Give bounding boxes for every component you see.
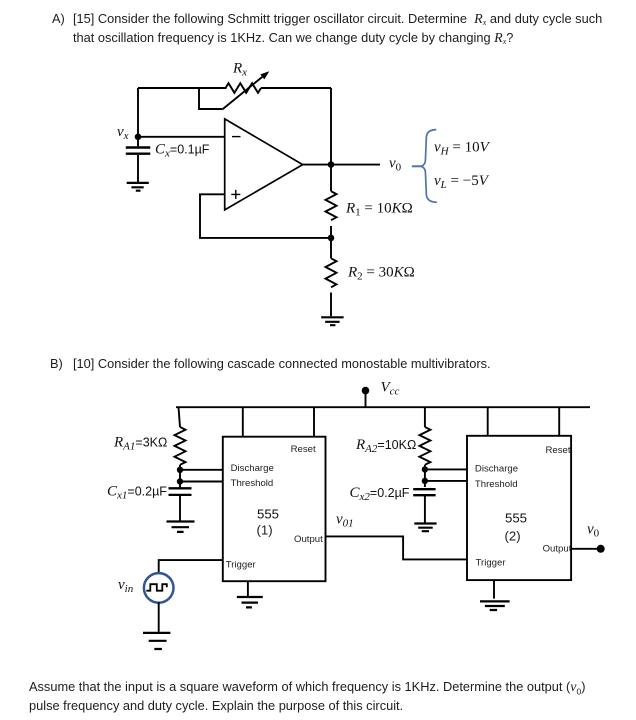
pin label Threshold (2) (475, 479, 518, 490)
wire: top rail left segment (138, 87, 227, 89)
wire: rail to RA1 (179, 407, 181, 427)
IC U1: 555 (1) box (223, 437, 326, 582)
capacitor Cx top lead (137, 137, 139, 147)
label vH = 10V (434, 140, 491, 158)
svg-text:Vcc: Vcc (381, 380, 400, 398)
svg-text:(2): (2) (505, 529, 521, 544)
svg-text:R1 = 10KΩ: R1 = 10KΩ (345, 201, 413, 219)
svg-text:Cx2=0.2µF: Cx2=0.2µF (350, 485, 410, 503)
IC U2: 555 (2) box (467, 436, 571, 580)
ground (under Cx1) (167, 522, 195, 532)
wire: output1 to trigger2 (326, 536, 468, 559)
svg-text:RA1=3KΩ: RA1=3KΩ (113, 435, 167, 453)
label (2) (505, 529, 521, 544)
svg-text:v01: v01 (336, 512, 354, 530)
wire: node vx to op-amp inverting input (138, 136, 225, 138)
label Cx1=0.2uF (107, 484, 167, 502)
svg-text:v0: v0 (389, 156, 402, 174)
wire: top-left vertical from rail to node vx (137, 88, 139, 137)
wire: rail to 555(2) Reset pin (558, 407, 560, 436)
svg-text:Rx: Rx (232, 61, 247, 79)
label 555 (1) (257, 507, 279, 522)
label Cx2=0.2uF (350, 485, 410, 503)
svg-text:Trigger: Trigger (226, 559, 257, 570)
wire: 555(1) ground pin (247, 581, 249, 596)
label Rx (232, 61, 247, 79)
wire: to Threshold pin of 555(2) (425, 480, 467, 482)
node threshold1 (junction dot) (177, 478, 183, 484)
svg-text:Output: Output (294, 534, 323, 545)
op-amp U1 (225, 119, 303, 210)
label RA2=10KOhm (355, 437, 416, 455)
label RA1=3KOhm (113, 435, 167, 453)
capacitor Cx bottom lead (137, 155, 139, 182)
wire: node to R2 (330, 238, 332, 258)
resistor R1 (zigzag) (326, 191, 337, 220)
source Vin (circle) (144, 573, 174, 603)
capacitor Cx2 plates (413, 489, 435, 495)
node Vcc (dot) (362, 387, 370, 395)
ground (under Cx) (127, 183, 149, 191)
svg-text:Reset: Reset (291, 444, 316, 455)
wire: RA1 to cap (179, 465, 181, 489)
wire: R2 to ground (330, 293, 332, 317)
svg-text:555: 555 (257, 507, 279, 522)
label R1 = 10KOhm (345, 201, 413, 219)
wire: top rail right segment (261, 87, 331, 89)
svg-text:Threshold: Threshold (475, 479, 518, 490)
ground (under 555(1)) (237, 597, 263, 607)
wire: rail to RA2 (424, 407, 426, 427)
node threshold2 (junction dot) (422, 478, 428, 484)
ground (under 555(2)) (480, 601, 510, 610)
wire: Vcc top rail (176, 406, 590, 408)
pin label Output (1) (294, 534, 323, 545)
svg-text:vin: vin (118, 577, 134, 595)
wire: output2 (571, 548, 601, 550)
pin label Output (2) (543, 544, 572, 555)
node discharge1 (junction dot) (177, 467, 183, 473)
ground (under R2) (321, 317, 343, 325)
pin label Reset (1) (291, 444, 316, 455)
op-amp plus sign (231, 190, 240, 199)
wire: R1 to node (330, 226, 332, 238)
resistor RA2 (zigzag) (419, 427, 430, 465)
label Vcc (381, 380, 400, 398)
label (1) (257, 523, 273, 538)
wire: op-amp output to node (303, 164, 380, 166)
problem B heading text (50, 356, 63, 371)
node vx (junction dot) (135, 134, 142, 141)
svg-text:vL = −5V: vL = −5V (434, 173, 490, 191)
node between R1 and R2 (junction dot) (328, 235, 335, 242)
node discharge2 (junction dot) (422, 466, 428, 472)
resistor R2 (zigzag) (326, 258, 337, 287)
svg-text:Cx1=0.2µF: Cx1=0.2µF (107, 484, 167, 502)
svg-text:Discharge: Discharge (231, 463, 274, 474)
svg-text:vH = 10V: vH = 10V (434, 140, 491, 158)
label vx (117, 124, 129, 142)
label vo (389, 156, 402, 174)
pin label Reset (2) (546, 445, 571, 456)
label 555 (2) (505, 511, 527, 526)
capacitor Cx plates (126, 148, 151, 154)
ground (under source) (143, 633, 170, 649)
wire: rail to 555(1) Vcc pin (242, 407, 244, 437)
capacitor Cx1 plates (169, 488, 192, 495)
label Cx=0.1uF (155, 142, 210, 160)
svg-text:Threshold: Threshold (231, 478, 274, 489)
svg-text:vx: vx (117, 124, 129, 142)
wire: rail to 555(2) Vcc pin (487, 407, 489, 436)
label v01 (336, 512, 354, 530)
wire: 555(2) ground pin (493, 580, 495, 599)
resistor Rx (zigzag) (226, 83, 261, 93)
label vin (118, 577, 134, 595)
wire: to Discharge pin of 555(2) (425, 468, 467, 470)
Rx wiper tail wire (notch from rail) (199, 88, 222, 109)
wire: to Threshold pin of 555(1) (180, 481, 223, 483)
node vo (output junction dot) (328, 161, 335, 168)
svg-text:Cx=0.1µF: Cx=0.1µF (155, 142, 210, 160)
capacitor Cx1 bottom lead (179, 496, 181, 521)
pin label Trigger (2) (476, 558, 507, 569)
svg-text:Output: Output (543, 544, 572, 555)
pin label Discharge (2) (475, 464, 518, 475)
brace (blue) for vH/vL (412, 130, 437, 203)
pin label Discharge (1) (231, 463, 274, 474)
pin label Threshold (1) (231, 478, 274, 489)
svg-text:Discharge: Discharge (475, 464, 518, 475)
bottom paragraph (29, 679, 586, 697)
svg-text:R2 = 30KΩ: R2 = 30KΩ (347, 265, 415, 283)
op-amp minus sign (232, 136, 241, 138)
label vo (output 2) (587, 522, 600, 540)
svg-text:Trigger: Trigger (476, 558, 507, 569)
wire: right vertical from rail to output node (330, 88, 332, 165)
square-wave glyph inside source (146, 584, 167, 591)
resistor RA1 (zigzag) (175, 427, 186, 465)
problem A heading text (52, 11, 65, 26)
pin label Trigger (1) (226, 559, 257, 570)
node vo terminal (dot) (597, 545, 605, 553)
svg-text:RA2=10KΩ: RA2=10KΩ (355, 437, 416, 455)
capacitor Cx2 bottom lead (424, 496, 426, 524)
wire: output node to R1 (330, 165, 332, 192)
wire: Vcc stem (365, 391, 367, 408)
label vL = -5V (434, 173, 490, 191)
label R2 = 30KOhm (347, 265, 415, 283)
svg-text:(1): (1) (257, 523, 273, 538)
wire: RA2 to cap (424, 465, 426, 487)
svg-text:Reset: Reset (546, 445, 571, 456)
svg-text:v0: v0 (587, 522, 600, 540)
svg-text:555: 555 (505, 511, 527, 526)
ground (under Cx2) (414, 524, 436, 532)
wire: to Discharge pin of 555(1) (180, 469, 223, 471)
wire: + input loop (200, 194, 331, 238)
wire: trigger1 wire from source (159, 560, 223, 572)
wire: source to ground (158, 602, 160, 633)
wire: rail to 555(1) Reset pin (313, 407, 315, 437)
Rx wiper arrow (222, 71, 269, 109)
